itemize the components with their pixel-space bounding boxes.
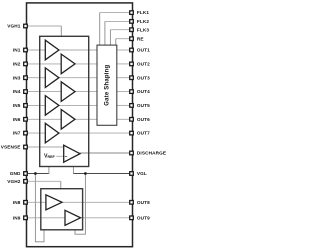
wire FLK1 to gate shaping top (100, 13, 130, 46)
comparator minus input mark (65, 155, 67, 157)
pin OUT7 (130, 131, 150, 136)
svg-text:IN7: IN7 (13, 131, 21, 136)
svg-text:VGH1: VGH1 (7, 24, 21, 29)
svg-text:VGL: VGL (137, 171, 147, 176)
pin OUT1 (130, 48, 150, 53)
wire IN7/OUT7 row (27, 132, 129, 134)
wire IN8/OUT8 row (27, 201, 129, 203)
svg-text:IN8: IN8 (13, 200, 21, 205)
pin OUT8 (130, 200, 150, 205)
wire VGH2 to lower buffer block (27, 181, 61, 189)
pin IN9 (13, 215, 27, 220)
buffer amplifier A6 (IN6) (61, 110, 75, 130)
svg-text:DISCHARGE: DISCHARGE (137, 151, 166, 156)
wire IN2 row to gate shaping (27, 63, 129, 65)
buffer amplifier A8 (IN8) (46, 195, 62, 210)
svg-text:VREF: VREF (44, 153, 55, 159)
buffer amplifier A9 (IN9) (65, 210, 81, 225)
pin OUT2 (130, 62, 150, 67)
svg-text:Gate Shaping: Gate Shaping (104, 65, 110, 106)
pin GND (10, 171, 28, 176)
pin IN2 (13, 62, 27, 67)
pin IN7 (13, 131, 27, 136)
junction dot VGL (84, 172, 87, 175)
svg-text:VGH2: VGH2 (7, 179, 21, 184)
junction dot GND (34, 172, 37, 175)
svg-text:IN4: IN4 (13, 89, 21, 94)
wire VGH1 to buffer block top (27, 26, 61, 37)
buffer amplifier A4 (IN4) (61, 82, 75, 102)
pin OUT6 (130, 117, 150, 122)
buffer amplifier A5 (IN5) (45, 96, 59, 116)
lower buffer block box (41, 189, 83, 230)
svg-text:OUT9: OUT9 (137, 215, 150, 220)
pin IN3 (13, 75, 27, 80)
svg-text:OUT5: OUT5 (137, 103, 150, 108)
svg-text:IN5: IN5 (13, 103, 21, 108)
svg-text:OUT4: OUT4 (137, 89, 150, 94)
svg-text:OUT1: OUT1 (137, 48, 150, 53)
wire VREF to comparator (56, 155, 64, 157)
buffer amplifier A1 (IN1) (45, 40, 59, 60)
pin VGL (130, 171, 147, 176)
buffer amplifier A3 (IN3) (45, 68, 59, 88)
wire RE to gate shaping top (116, 39, 129, 46)
svg-text:IN2: IN2 (13, 62, 21, 67)
pin OUT4 (130, 89, 150, 94)
pin RE (130, 36, 144, 41)
buffer amplifier A2 (IN2) (61, 54, 75, 74)
wire VGL net (73, 167, 129, 235)
pin VGH1 (7, 24, 27, 29)
svg-text:IN6: IN6 (13, 117, 21, 122)
svg-text:OUT6: OUT6 (137, 117, 150, 122)
svg-text:FLK2: FLK2 (137, 19, 149, 24)
pin OUT3 (130, 75, 150, 80)
buffer amplifier A7 (IN7) (45, 123, 59, 143)
pin OUT9 (130, 215, 150, 220)
wire FLK2 to gate shaping top (105, 21, 129, 45)
svg-text:IN1: IN1 (13, 48, 21, 53)
svg-text:IN3: IN3 (13, 75, 21, 80)
wire GND net (27, 167, 49, 243)
pin DISCHARGE (130, 151, 166, 156)
svg-text:OUT8: OUT8 (137, 200, 150, 205)
wire IN5 row to gate shaping (27, 104, 129, 106)
wire IN6 row to gate shaping (27, 118, 129, 120)
wire IN4 row to gate shaping (27, 91, 129, 93)
pin FLK1 (130, 10, 150, 15)
pin IN1 (13, 48, 27, 53)
svg-text:OUT3: OUT3 (137, 75, 150, 80)
pin IN5 (13, 103, 27, 108)
wire IN1 row to gate shaping (27, 49, 129, 51)
pin FLK3 (130, 27, 150, 32)
IC boundary box (27, 3, 133, 247)
comparator (VSENSE vs VREF) (64, 145, 80, 162)
wire VSENSE to comparator (27, 146, 63, 148)
pin FLK2 (130, 19, 150, 24)
pin OUT5 (130, 103, 150, 108)
svg-text:VSENSE: VSENSE (1, 145, 21, 150)
upper buffer block box (40, 36, 89, 166)
wire IN3 row to gate shaping (27, 77, 129, 79)
gate shaping block (97, 45, 117, 125)
svg-text:GND: GND (10, 171, 21, 176)
svg-text:FLK3: FLK3 (137, 27, 149, 32)
pin IN4 (13, 89, 27, 94)
pin VGH2 (7, 179, 27, 184)
pin VSENSE (1, 145, 28, 150)
svg-text:OUT2: OUT2 (137, 62, 150, 67)
svg-text:RE: RE (137, 36, 144, 41)
wire FLK3 to gate shaping top (110, 30, 129, 46)
svg-text:FLK1: FLK1 (137, 10, 149, 15)
svg-text:OUT7: OUT7 (137, 131, 150, 136)
pin IN8 (13, 200, 27, 205)
wire comparator out to DISCHARGE (80, 152, 130, 154)
wire IN9/OUT9 row (27, 217, 129, 219)
svg-text:IN9: IN9 (13, 215, 21, 220)
pin IN6 (13, 117, 27, 122)
